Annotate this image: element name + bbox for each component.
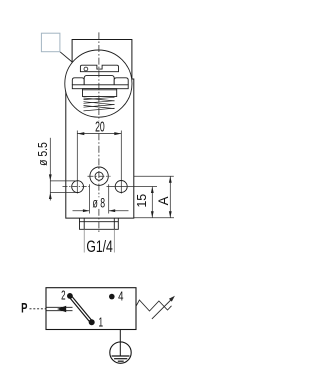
left hole horizontal centerline bbox=[63, 186, 92, 188]
port dot 2 bbox=[67, 293, 73, 299]
pilot dashed line to P bbox=[30, 308, 47, 310]
svg-text:G1/4: G1/4 bbox=[86, 238, 113, 256]
valve block under nut bbox=[83, 89, 117, 97]
exhaust bars bbox=[112, 355, 130, 357]
exhaust line from box bbox=[119, 330, 121, 357]
thread extension lines below stub bbox=[83, 229, 85, 252]
white halo under 20 label bbox=[94, 121, 105, 132]
exhaust circle bbox=[110, 342, 131, 363]
hex nut right facet bbox=[114, 78, 128, 85]
vertical centerline of valve body (on top) bbox=[98, 32, 100, 233]
small hole on plate bbox=[84, 67, 88, 71]
hex nut middle facet bbox=[84, 75, 114, 84]
flow path double line 1 to 2 bbox=[71, 295, 93, 321]
svg-text:15: 15 bbox=[135, 194, 149, 208]
svg-text:4: 4 bbox=[118, 290, 124, 304]
adjustment arrow shaft bbox=[152, 299, 172, 319]
port dot 1 bbox=[89, 319, 95, 325]
svg-text:2: 2 bbox=[61, 290, 66, 303]
right mounting hole bbox=[115, 181, 127, 193]
central hole horizontal centerline bbox=[88, 175, 111, 177]
hex nut base band bbox=[72, 85, 128, 89]
hole centerline right (20 dim extension) bbox=[120, 131, 122, 194]
dimension o8 bbox=[73, 184, 129, 213]
white halo under o8 label bbox=[91, 197, 107, 209]
valve box bbox=[46, 288, 136, 330]
dimension A bbox=[134, 176, 174, 218]
central hole o8 bbox=[90, 167, 108, 185]
port dot 4 bbox=[109, 294, 115, 300]
note square (blue) bbox=[41, 33, 60, 52]
svg-text:ø 8: ø 8 bbox=[93, 196, 106, 212]
hex nut left facet bbox=[72, 78, 84, 85]
main body rectangle bbox=[66, 79, 134, 218]
svg-text:1: 1 bbox=[98, 316, 103, 330]
spring coil bbox=[84, 97, 115, 111]
svg-text:P: P bbox=[21, 301, 27, 316]
svg-text:ø 5.5: ø 5.5 bbox=[36, 142, 50, 166]
threaded stub G1/4 bbox=[80, 218, 119, 229]
right hole centerline / 15-dim extension line bbox=[107, 186, 158, 188]
svg-text:20: 20 bbox=[95, 118, 105, 135]
left mounting hole bbox=[72, 181, 84, 193]
housing (top cap) outline bbox=[72, 40, 132, 83]
dimension o5.5 bbox=[49, 138, 77, 201]
detail circle (enlarged view) bbox=[65, 50, 132, 117]
relief arrowhead bbox=[57, 306, 66, 312]
leader line from note square to detail circle bbox=[60, 52, 73, 63]
relief arrow double line toward P bbox=[46, 306, 73, 308]
hole centerline left (20 dim extension) bbox=[76, 131, 78, 194]
dimension 20 line with arrows bbox=[77, 132, 121, 135]
dimension 15 bbox=[151, 187, 154, 218]
adjustable spring zigzag bbox=[136, 300, 172, 311]
screw plate (slotted head, side view) bbox=[80, 65, 118, 72]
adjustment arrowhead bbox=[169, 296, 175, 302]
svg-text:A: A bbox=[155, 196, 170, 206]
